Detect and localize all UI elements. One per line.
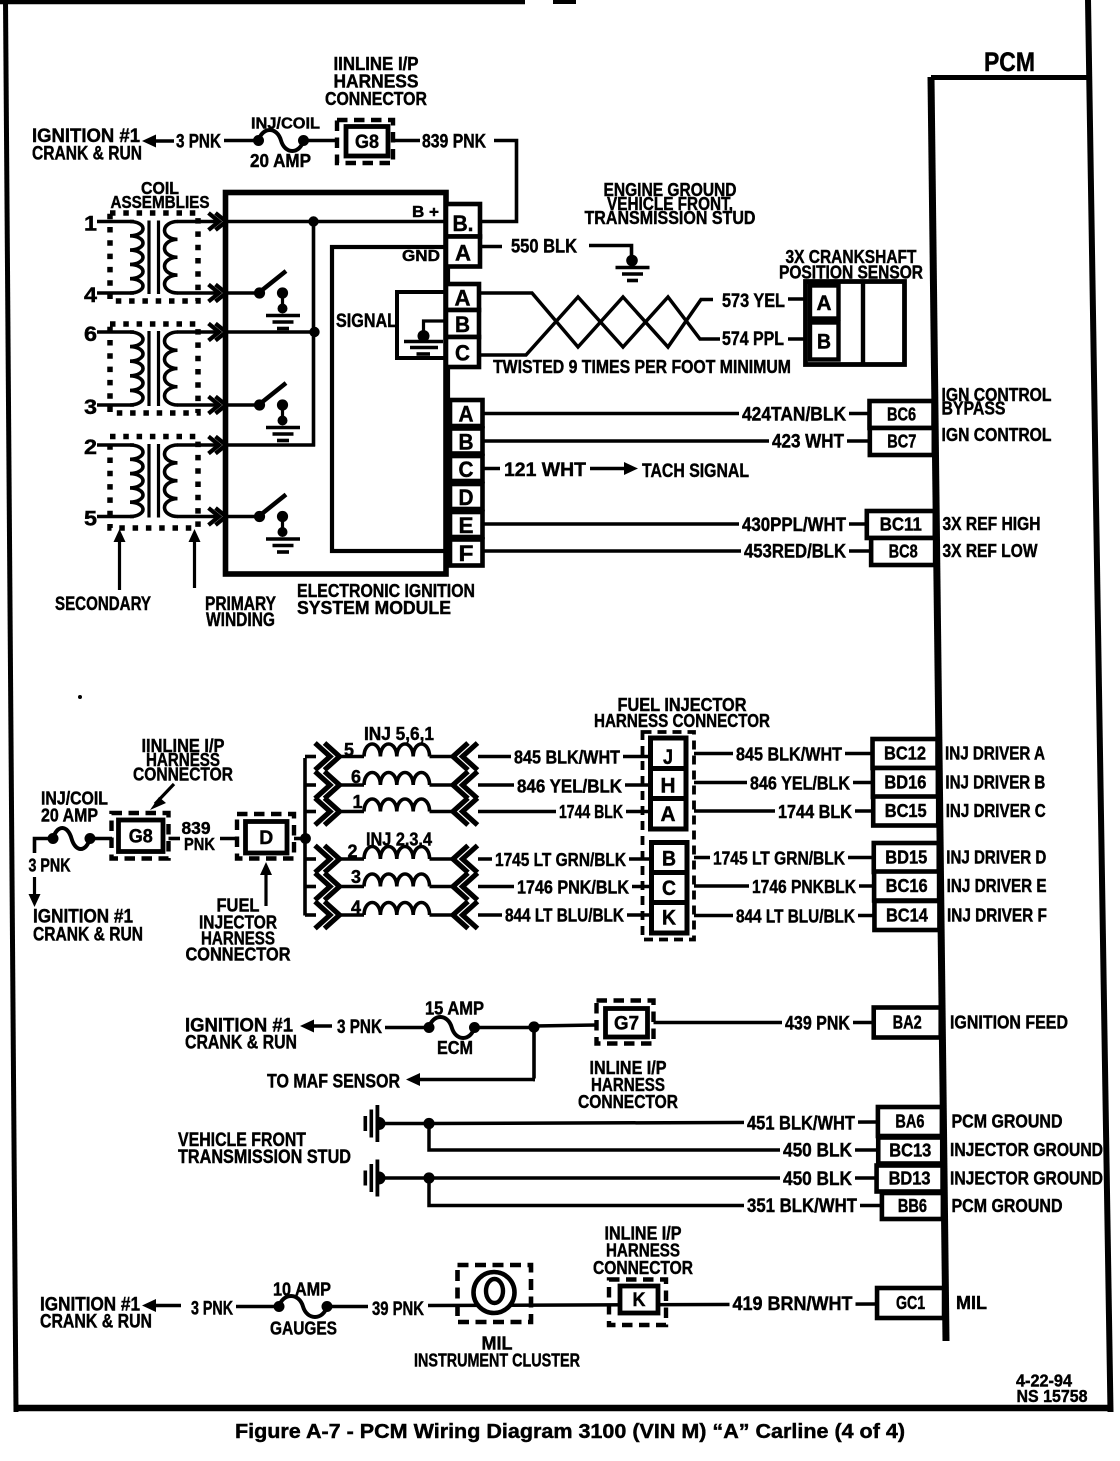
svg-text:3: 3 <box>351 867 361 887</box>
svg-text:550 BLK: 550 BLK <box>511 237 577 258</box>
svg-text:INJ DRIVER B: INJ DRIVER B <box>945 773 1045 793</box>
wire 1746 PNK/BLK left <box>478 885 652 889</box>
inline connector G8 (top) <box>337 120 393 163</box>
svg-text:IGN CONTROL: IGN CONTROL <box>942 425 1052 445</box>
chevron in row 6 <box>453 772 468 799</box>
svg-text:PCM GROUND: PCM GROUND <box>952 1112 1063 1132</box>
chevron into module row 4 <box>209 285 220 302</box>
injector coil 6 <box>364 773 430 786</box>
svg-text:424TAN/BLK: 424TAN/BLK <box>742 405 846 426</box>
junction dot stud1 <box>423 1118 434 1129</box>
B+ bus vertical <box>312 222 316 447</box>
svg-text:G7: G7 <box>614 1013 639 1034</box>
terminal GC1 <box>877 1288 944 1318</box>
wire 1745 LT GRN/BLK right <box>694 856 876 860</box>
shield ground dot <box>418 330 430 342</box>
terminal BC12 <box>873 739 938 768</box>
core lines 2/5 <box>147 444 150 518</box>
wire 3PNK to fuse (ECM) <box>385 1026 424 1030</box>
svg-text:B: B <box>459 430 474 455</box>
wire injector row 3 from bus <box>305 885 316 889</box>
wire primary 5 to module <box>177 515 216 519</box>
core lines 1/4 <box>147 221 150 295</box>
core lines 6/3 <box>147 331 150 406</box>
svg-text:INJECTOR GROUND: INJECTOR GROUND <box>950 1140 1103 1160</box>
svg-text:845 BLK/WHT: 845 BLK/WHT <box>514 747 621 768</box>
wire chevron to coil row 4 <box>339 913 364 917</box>
page border right <box>1085 0 1114 1412</box>
fuse ECM 15 AMP <box>424 1022 435 1033</box>
svg-text:B: B <box>662 847 676 871</box>
wire 121 WHT tach <box>483 467 501 471</box>
svg-text:574 PPL: 574 PPL <box>722 329 784 350</box>
svg-text:6: 6 <box>84 323 97 346</box>
wire 573 YEL to sensor pin A <box>788 297 807 301</box>
svg-text:D: D <box>459 485 474 510</box>
chevron in row 2 <box>453 846 468 873</box>
arrow to G8 connector (injector) <box>150 797 166 810</box>
chevron out row 1 <box>315 798 330 825</box>
ground coil 5 <box>266 537 300 541</box>
svg-text:BC6: BC6 <box>887 404 916 425</box>
secondary winding 1/4 <box>130 222 143 293</box>
wire coil 1 row <box>97 220 134 224</box>
inline connector K <box>609 1280 666 1326</box>
svg-text:K: K <box>633 1290 646 1311</box>
fuel injector harness connector D <box>237 814 294 859</box>
coil assembly 6/3 dotted box <box>110 324 198 413</box>
page border left <box>3 0 19 1412</box>
wire 3PNK to fuse (MIL) <box>236 1305 274 1309</box>
wire G8 to 839 PNK (injector) <box>169 837 181 841</box>
wire 845 BLK/WHT right <box>694 752 876 756</box>
connector pins J H A box <box>651 738 687 829</box>
wire primary 2 to module <box>177 443 216 447</box>
svg-text:845 BLK/WHT: 845 BLK/WHT <box>736 744 843 765</box>
wire coil to chevron row 6 <box>430 783 454 787</box>
svg-text:ECM: ECM <box>437 1038 473 1058</box>
terminal BC16 <box>874 872 939 901</box>
coil assembly 2/5 dotted box <box>110 437 198 529</box>
primary winding 6/3 <box>165 332 178 405</box>
wire injector row 4 from bus <box>305 913 316 917</box>
svg-text:430PPL/WHT: 430PPL/WHT <box>742 515 846 536</box>
svg-text:CRANK & RUN: CRANK & RUN <box>33 924 143 946</box>
wire 451 BLK/WHT <box>429 1122 880 1124</box>
svg-text:BC14: BC14 <box>886 905 929 926</box>
wire 574 PPL to sensor pin B <box>788 337 807 341</box>
chevron in row 1 <box>453 798 468 825</box>
svg-text:1745 LT GRN/BLK: 1745 LT GRN/BLK <box>713 848 846 869</box>
wire fuse to junction (ECM) <box>479 1026 530 1030</box>
svg-text:4: 4 <box>84 284 97 307</box>
wire coil 2 row <box>97 443 134 447</box>
svg-text:A: A <box>459 402 474 427</box>
svg-text:C: C <box>455 341 470 366</box>
svg-text:C: C <box>459 457 474 482</box>
module pin E box (driver group) <box>450 512 483 537</box>
arrow to ignition #1 (top) <box>142 135 156 148</box>
crankshaft sensor box <box>806 282 905 365</box>
svg-text:B +: B + <box>412 204 439 221</box>
svg-text:BA2: BA2 <box>893 1012 922 1033</box>
svg-text:A: A <box>661 802 676 826</box>
svg-text:BC8: BC8 <box>889 541 918 562</box>
svg-text:2: 2 <box>84 436 97 459</box>
svg-text:3 PNK: 3 PNK <box>191 1298 233 1320</box>
module pin C box (signal) <box>446 337 479 367</box>
terminal BC11 <box>867 511 935 538</box>
chevron out row 3 <box>315 873 330 900</box>
engine ground symbol <box>616 266 650 270</box>
svg-text:3X REF LOW: 3X REF LOW <box>943 541 1038 561</box>
wire junction to G7 <box>534 1025 596 1026</box>
fuse INJ/COIL (injector) <box>48 833 59 844</box>
svg-text:844 LT BLU/BLK: 844 LT BLU/BLK <box>505 905 625 926</box>
svg-text:1745 LT GRN/BLK: 1745 LT GRN/BLK <box>495 849 627 870</box>
ground coil 4 <box>266 314 300 318</box>
shield ground wire to pin B <box>424 321 447 332</box>
wire coil 5 row <box>97 515 134 519</box>
chevron in row 3 <box>453 873 468 900</box>
svg-text:GC1: GC1 <box>896 1292 925 1313</box>
module pin A box (driver group) <box>450 400 483 426</box>
module pin A box (GND) <box>446 237 480 267</box>
svg-text:BC16: BC16 <box>886 875 928 896</box>
wire primary 3 to module <box>177 403 216 407</box>
svg-text:1744 BLK: 1744 BLK <box>559 801 623 822</box>
primary winding 2/5 <box>165 445 178 517</box>
inline connector G8 (injector) <box>112 813 169 859</box>
svg-text:5: 5 <box>84 508 97 531</box>
arrow ignition (ECM row) <box>300 1020 314 1033</box>
injector coil 1 <box>364 799 430 812</box>
svg-text:BC15: BC15 <box>885 800 927 821</box>
injector coil 5 <box>364 744 430 757</box>
svg-text:H: H <box>661 774 676 798</box>
wire injector row 6 from bus <box>305 783 316 787</box>
chevron into module row 6 <box>209 324 220 341</box>
page border bottom <box>14 1405 1111 1412</box>
svg-text:INJECTOR GROUND: INJECTOR GROUND <box>950 1169 1103 1189</box>
engine ground stud dot <box>626 255 638 267</box>
svg-text:TACH SIGNAL: TACH SIGNAL <box>642 461 749 482</box>
wire primary 1 to module <box>177 220 216 224</box>
svg-text:BB6: BB6 <box>898 1195 927 1216</box>
wire coil 4 row <box>97 291 134 295</box>
wire hook 3PNK (injector) <box>35 839 49 854</box>
wire 39 PNK to MIL <box>428 1304 878 1306</box>
svg-text:BA6: BA6 <box>895 1111 924 1132</box>
MIL lamp <box>474 1272 515 1313</box>
svg-text:B: B <box>455 312 470 337</box>
svg-text:CONNECTOR: CONNECTOR <box>133 765 233 785</box>
chevron in row 5 <box>453 743 468 770</box>
svg-text:A: A <box>455 241 471 266</box>
wire coil4 row to switch <box>228 291 256 295</box>
terminal BA2 <box>874 1008 941 1038</box>
svg-text:SYSTEM MODULE: SYSTEM MODULE <box>297 597 451 618</box>
wire chevron to coil row 5 <box>339 755 364 759</box>
svg-text:3X REF HIGH: 3X REF HIGH <box>943 514 1041 534</box>
arrow tach signal <box>624 462 638 475</box>
svg-text:Figure A-7 - PCM Wiring Diagra: Figure A-7 - PCM Wiring Diagram 3100 (VI… <box>235 1420 905 1443</box>
svg-text:TRANSMISSION STUD: TRANSMISSION STUD <box>585 208 756 228</box>
svg-text:15 AMP: 15 AMP <box>425 999 484 1019</box>
switch transistor coil 3 <box>254 399 265 410</box>
chevron out row 4 <box>315 902 330 929</box>
wire coil2 row to bus <box>228 443 315 447</box>
svg-text:1: 1 <box>84 213 97 236</box>
svg-text:1746 PNKBLK: 1746 PNKBLK <box>752 876 857 897</box>
wire 424 TAN/BLK <box>483 412 873 416</box>
wire coil to chevron row 1 <box>430 810 454 814</box>
svg-text:INJ DRIVER F: INJ DRIVER F <box>947 906 1047 926</box>
wire coil 6 row <box>97 330 134 334</box>
svg-text:419 BRN/WHT: 419 BRN/WHT <box>733 1294 853 1315</box>
svg-text:B.: B. <box>453 211 474 236</box>
wire coil6 row to bus <box>228 330 315 334</box>
svg-text:3: 3 <box>84 396 97 419</box>
arrow up to D connector <box>260 862 272 875</box>
svg-text:573 YEL: 573 YEL <box>722 291 785 312</box>
svg-text:D: D <box>259 828 273 849</box>
secondary winding 2/5 <box>130 445 143 516</box>
svg-text:E: E <box>459 513 474 538</box>
speck dot <box>78 695 82 699</box>
svg-text:BC11: BC11 <box>880 514 922 535</box>
svg-text:450 BLK: 450 BLK <box>783 1141 852 1162</box>
label SECONDARY arrow <box>114 529 126 542</box>
svg-text:453RED/BLK: 453RED/BLK <box>744 542 846 563</box>
chevron out row 6 <box>315 772 330 799</box>
page border top dash speck <box>553 0 576 4</box>
svg-text:TRANSMISSION STUD: TRANSMISSION STUD <box>178 1147 351 1168</box>
wire stud1 to junction <box>385 1122 426 1126</box>
svg-text:INJ/COIL: INJ/COIL <box>251 116 320 133</box>
wire chevron to coil row 1 <box>339 810 364 814</box>
svg-text:846 YEL/BLK: 846 YEL/BLK <box>517 776 623 797</box>
svg-text:CONNECTOR: CONNECTOR <box>578 1092 678 1112</box>
wire coil to chevron row 3 <box>430 885 454 889</box>
wire injector row 1 from bus <box>305 810 316 814</box>
wire 845 BLK/WHT left <box>478 755 650 759</box>
module pin B. box <box>446 204 480 237</box>
svg-text:K: K <box>662 906 676 930</box>
label PRIMARY WINDING arrow <box>189 529 201 542</box>
svg-text:J: J <box>663 745 673 769</box>
junction dot stud2 <box>423 1172 434 1183</box>
terminal BD15 <box>874 843 939 872</box>
wire fuse to G8 (injector) <box>95 837 112 841</box>
svg-text:G8: G8 <box>355 132 379 153</box>
svg-text:CRANK & RUN: CRANK & RUN <box>32 143 142 165</box>
wire coil5 row to switch <box>228 515 256 519</box>
wire 453 RED/BLK <box>483 549 873 553</box>
svg-text:BD13: BD13 <box>889 1168 931 1189</box>
svg-text:PNK: PNK <box>184 834 215 854</box>
wire injector row 5 from bus <box>305 755 316 759</box>
fuse INJ/COIL 20 AMP (top) <box>253 135 264 146</box>
svg-text:PCM GROUND: PCM GROUND <box>952 1196 1063 1216</box>
PCM box top line <box>931 75 1090 80</box>
svg-text:ASSEMBLIES: ASSEMBLIES <box>111 192 210 212</box>
svg-text:INJ DRIVER E: INJ DRIVER E <box>947 876 1047 896</box>
wire fuse to 39 PNK <box>332 1305 368 1309</box>
svg-text:GND: GND <box>402 248 440 265</box>
svg-text:SECONDARY: SECONDARY <box>55 593 151 615</box>
module pin B box (driver group) <box>450 429 483 454</box>
chevron out row 2 <box>315 846 330 873</box>
coil assembly 1/4 dotted box <box>110 213 198 301</box>
svg-text:GAUGES: GAUGES <box>270 1319 337 1339</box>
svg-text:1744 BLK: 1744 BLK <box>778 801 853 822</box>
injector bus vertical <box>303 758 307 916</box>
PCM box left line <box>928 77 950 1341</box>
svg-text:CRANK & RUN: CRANK & RUN <box>40 1311 152 1333</box>
chevron into module row 1 <box>209 213 220 230</box>
wire pin A(GND) stub <box>480 245 502 249</box>
terminal BC7 <box>870 428 934 455</box>
wire 3PNK to fuse <box>224 139 254 143</box>
svg-text:C: C <box>662 876 676 900</box>
sensor pin B box <box>810 323 839 360</box>
terminal BC13 <box>878 1138 942 1164</box>
shield ground symbol <box>404 340 443 344</box>
chevron in row 4 <box>453 902 468 929</box>
secondary winding 6/3 <box>130 332 143 405</box>
primary winding 1/4 <box>165 222 178 294</box>
wire coil 3 row <box>97 403 134 407</box>
switch transistor coil 5 <box>254 511 265 522</box>
page border top <box>0 0 525 4</box>
svg-text:CONNECTOR: CONNECTOR <box>593 1258 693 1278</box>
svg-text:A: A <box>817 291 832 315</box>
svg-text:10 AMP: 10 AMP <box>273 1280 331 1300</box>
wire coil3 row to switch <box>228 403 256 407</box>
ground stud 1 <box>364 1116 368 1131</box>
svg-text:BD16: BD16 <box>884 772 926 793</box>
wire coil to chevron row 2 <box>430 857 454 861</box>
module pin A box (signal) <box>446 284 479 310</box>
wire 1745 LT GRN/BLK left <box>478 857 652 861</box>
svg-text:BC12: BC12 <box>884 743 926 764</box>
svg-text:20 AMP: 20 AMP <box>250 151 311 171</box>
wire coil to chevron row 4 <box>430 913 454 917</box>
wire stud2 to junction <box>385 1176 426 1180</box>
shield ground box in module <box>397 292 446 358</box>
ground coil 3 <box>266 426 300 430</box>
svg-text:MIL: MIL <box>956 1293 987 1313</box>
wire 846 YEL/BLK right <box>694 781 876 785</box>
wire 430 PPL/WHT <box>483 522 873 526</box>
svg-text:BD15: BD15 <box>885 847 927 868</box>
chevron out row 5 <box>315 743 330 770</box>
wire 844 LT BLU/BLK right <box>694 914 876 918</box>
svg-text:CONNECTOR: CONNECTOR <box>325 89 427 109</box>
svg-text:A: A <box>455 286 471 311</box>
inline connector G7 <box>597 1001 654 1044</box>
fuel injector harness connector dashed box <box>643 732 695 940</box>
svg-text:846 YEL/BLK: 846 YEL/BLK <box>750 773 851 794</box>
svg-text:INSTRUMENT CLUSTER: INSTRUMENT CLUSTER <box>414 1351 580 1371</box>
module pin C box (driver group) <box>450 456 483 481</box>
svg-text:423 WHT: 423 WHT <box>772 432 844 453</box>
chevron into module row 5 <box>209 508 220 525</box>
terminal BD13 <box>877 1166 943 1192</box>
terminal BA6 <box>878 1107 942 1136</box>
svg-text:451 BLK/WHT: 451 BLK/WHT <box>747 1114 855 1135</box>
svg-text:INJ 5,6,1: INJ 5,6,1 <box>364 724 434 744</box>
terminal BB6 <box>882 1193 943 1219</box>
module pin B box (signal) <box>446 310 479 337</box>
wire 1744 BLK left <box>478 810 650 814</box>
sensor pin A box <box>810 286 839 319</box>
svg-text:CRANK & RUN: CRANK & RUN <box>185 1032 297 1054</box>
svg-text:3 PNK: 3 PNK <box>29 856 71 876</box>
wire 844 LT BLU/BLK left <box>478 913 652 917</box>
svg-text:BC7: BC7 <box>887 431 916 452</box>
wire D to junction <box>294 837 303 841</box>
wire G8 to 839 PNK label <box>393 139 420 143</box>
svg-text:WINDING: WINDING <box>206 609 275 631</box>
wire chevron to coil row 2 <box>339 857 364 861</box>
arrow TO MAF SENSOR <box>406 1073 420 1086</box>
twisted pair wires <box>481 293 713 347</box>
svg-text:INJ DRIVER C: INJ DRIVER C <box>946 801 1046 821</box>
terminal BC8 <box>871 538 935 565</box>
terminal BC14 <box>874 901 939 930</box>
sensor divider <box>861 282 865 365</box>
svg-text:TO MAF SENSOR: TO MAF SENSOR <box>267 1072 400 1093</box>
svg-text:INJ DRIVER A: INJ DRIVER A <box>945 744 1045 764</box>
wire G7 to BA2 <box>654 1021 879 1025</box>
injector coil 3 <box>364 874 430 887</box>
junction dot B+ bus coil1 <box>308 216 318 226</box>
wire 846 YEL/BLK left <box>478 783 650 787</box>
wire chevron to coil row 3 <box>339 885 364 889</box>
module inner signal box <box>332 247 448 551</box>
MIL instrument cluster dashed box <box>458 1265 532 1322</box>
svg-text:G8: G8 <box>129 826 153 847</box>
wire 450 BLK (BD13) <box>429 1176 884 1180</box>
wire 1744 BLK right <box>694 809 876 813</box>
svg-text:B: B <box>817 330 831 354</box>
svg-text:NS 15758: NS 15758 <box>1017 1386 1088 1406</box>
injector coil 4 <box>364 902 430 915</box>
svg-text:SIGNAL: SIGNAL <box>336 311 397 332</box>
module pin F box (driver group) <box>450 540 483 566</box>
svg-text:3 PNK: 3 PNK <box>337 1016 382 1038</box>
svg-text:IGNITION FEED: IGNITION FEED <box>950 1013 1068 1033</box>
svg-text:INJ DRIVER D: INJ DRIVER D <box>946 848 1046 868</box>
wire drop stud2 to 351 BLK/WHT <box>429 1178 884 1206</box>
wire to MAF sensor drop <box>532 1027 536 1079</box>
switch transistor coil 4 <box>254 287 265 298</box>
svg-text:PCM: PCM <box>984 47 1035 77</box>
terminal BD16 <box>873 768 938 797</box>
terminal BC15 <box>873 797 938 826</box>
connector pins B C K box <box>652 843 688 934</box>
wire drop stud1 to 450 BLK <box>429 1124 884 1151</box>
svg-text:1746 PNK/BLK: 1746 PNK/BLK <box>517 877 630 898</box>
svg-text:BYPASS: BYPASS <box>942 399 1006 419</box>
junction dot B+ bus coil6 <box>309 327 319 337</box>
junction dot injector bus <box>300 833 311 844</box>
wire injector row 2 from bus <box>305 857 316 861</box>
wire coil to chevron row 5 <box>430 755 454 759</box>
wire coil1 row to pin B (B+ line) <box>228 220 447 224</box>
